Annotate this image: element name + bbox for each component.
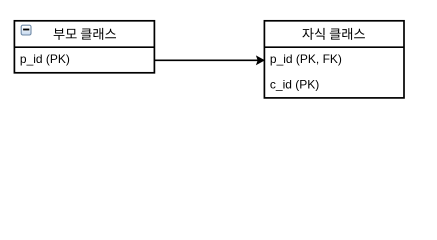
- svg-text:c_id (PK): c_id (PK): [270, 77, 319, 91]
- relationship connector wire: [154, 59, 259, 61]
- collapse button (minus icon): [21, 25, 31, 35]
- divider line under child title: [264, 46, 404, 48]
- title text: 자식 클래스: [302, 28, 365, 40]
- divider line under parent title: [14, 46, 154, 48]
- entity box: parent class (부모 클래스): [14, 21, 154, 73]
- svg-text:p_id (PK, FK): p_id (PK, FK): [270, 52, 342, 66]
- title text: 부모 클래스: [54, 28, 116, 40]
- arrowhead (classic) at child box: [257, 56, 264, 64]
- entity box: child class (자식 클래스): [264, 21, 404, 98]
- svg-text:p_id (PK): p_id (PK): [20, 52, 70, 66]
